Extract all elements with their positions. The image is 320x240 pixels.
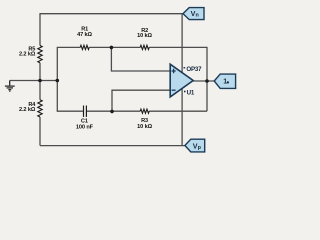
svg-text:1: 1 [223,79,227,86]
resistor R1 [80,45,89,49]
wire: op-amp output to tag [193,80,214,82]
op-amp pin dot (bottom) [184,91,186,93]
svg-text:n: n [196,13,199,19]
node: output junction [205,79,209,83]
wire: non-inverting input stub [111,47,170,71]
svg-text:OP37: OP37 [186,66,202,73]
wire: R1-R2 branch right segment to feedback corner [149,46,207,48]
svg-text:10 kΩ: 10 kΩ [137,33,152,39]
terminal Vp [185,139,205,152]
svg-text:100 nF: 100 nF [76,124,94,130]
ground [5,81,15,92]
wire: top rail from left corner to Vn tag [40,13,183,15]
node: C1/R3 junction [110,110,114,114]
wire: R3 to feedback corner segment [149,110,207,112]
wire: vertical bus line B [56,48,58,112]
node: ground-bus B junction [56,79,60,83]
svg-text:2.2 kΩ: 2.2 kΩ [19,52,36,58]
labels: component values [76,27,153,131]
resistor R5 [38,46,42,63]
op-amp + input marker [172,69,176,74]
wire: Vp supply drop from op-amp [181,88,183,145]
wire: C1 branch left segment [57,110,83,112]
wire: Vn supply drop to op-amp [181,14,183,73]
wire: C1 to R3 segment [87,110,140,112]
node: R1/R2 junction [110,46,114,50]
svg-text:10 kΩ: 10 kΩ [137,124,152,130]
svg-text:47 kΩ: 47 kΩ [77,32,92,38]
resistor R4 [38,100,42,117]
wire: left rail upper segment [39,13,41,45]
svg-text:U1: U1 [187,89,195,96]
wire: bottom rail to Vp tag [40,145,185,147]
wire: ground branch [10,80,58,82]
terminal Vn [183,8,204,20]
op-amp pin dot (top) [184,67,186,68]
wire: inverting input stub [112,90,171,111]
wire: feedback vertical line [206,47,208,111]
terminal output node 1 [214,74,235,88]
capacitor C1 [84,106,87,117]
wire: left rail lower segment [39,117,41,146]
resistor R3 [140,109,149,113]
wire: R1-R2 branch left segment [57,46,80,48]
wire: R1-R2 branch middle segment [89,46,140,48]
wire: left rail middle segment (between R5 and R4) [39,63,41,100]
resistor R2 [140,45,149,49]
node: ground-left rail junction [38,79,42,83]
op-amp U1 triangle [170,64,193,97]
svg-text:2.2 kΩ: 2.2 kΩ [19,107,36,113]
op-amp - input marker [172,89,176,91]
